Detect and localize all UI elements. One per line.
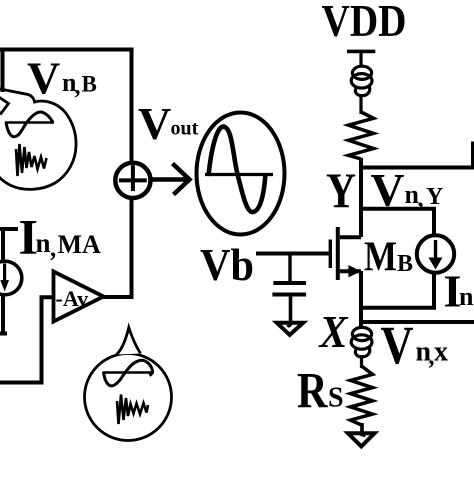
- svg-text:n,MA: n,MA: [36, 228, 102, 262]
- inductor L2: [351, 327, 372, 357]
- wire Rs to ground: [362, 423, 366, 436]
- current source InMA: [0, 261, 22, 295]
- noise blob 2: [85, 328, 172, 441]
- transistor MB drain lead: [340, 235, 361, 239]
- wire top feedback: [0, 48, 132, 52]
- resistor Rs: [351, 366, 373, 425]
- svg-text:Y: Y: [326, 162, 356, 218]
- svg-text:X: X: [318, 306, 349, 357]
- wire amp input: [0, 297, 54, 382]
- inductor L1: [351, 66, 372, 96]
- wire stub right edge: [471, 142, 474, 168]
- wire L1 to R1: [359, 94, 362, 114]
- svg-text:out: out: [171, 118, 199, 140]
- transistor MB source arrow: [348, 265, 361, 277]
- svg-text:V: V: [138, 98, 171, 149]
- wire stub current source top: [0, 227, 18, 231]
- wire R1 to node Y: [359, 158, 363, 170]
- transistor MB channel bar: [336, 227, 340, 280]
- transistor MB gate bar: [329, 240, 332, 269]
- wire below current source: [1, 295, 5, 332]
- svg-text:S: S: [328, 383, 344, 414]
- svg-text:VDD: VDD: [322, 0, 407, 46]
- wire L2 to Rs: [360, 355, 363, 368]
- scope ellipse Vout waveform: [197, 113, 285, 235]
- svg-text:-Av: -Av: [56, 286, 89, 311]
- wire to current source top: [361, 209, 434, 236]
- svg-text:n,B: n,B: [62, 68, 97, 100]
- wire rail to summer: [130, 48, 134, 164]
- wire arrow to scope: [151, 177, 188, 182]
- supply VDD bar: [347, 50, 375, 54]
- node Y wire right: [361, 166, 474, 170]
- node X wire right: [361, 320, 474, 324]
- wire summer to amp output: [130, 198, 134, 297]
- wire source to node X: [359, 271, 363, 328]
- ground capacitor: [288, 322, 291, 326]
- capacitor C1: [288, 254, 291, 282]
- op-amp -Av: [54, 272, 104, 322]
- svg-text:n: n: [459, 282, 474, 311]
- wire current source bottom: [361, 273, 434, 308]
- wire gate from Vb: [256, 252, 329, 256]
- ground Rs: [348, 433, 375, 446]
- svg-text:V: V: [381, 315, 414, 375]
- noise blob B: [0, 88, 76, 190]
- svg-text:B: B: [397, 251, 413, 277]
- svg-text:M: M: [364, 235, 397, 281]
- transistor MB source lead: [340, 269, 361, 273]
- svg-text:Vb: Vb: [200, 240, 254, 290]
- wire left rail top: [1, 48, 5, 93]
- node summer S1: [115, 163, 150, 198]
- current source In: [417, 235, 454, 272]
- svg-text:R: R: [297, 364, 328, 420]
- resistor R1: [349, 112, 374, 159]
- wire Y to drain: [359, 166, 363, 238]
- wire amp output to rail: [102, 295, 134, 299]
